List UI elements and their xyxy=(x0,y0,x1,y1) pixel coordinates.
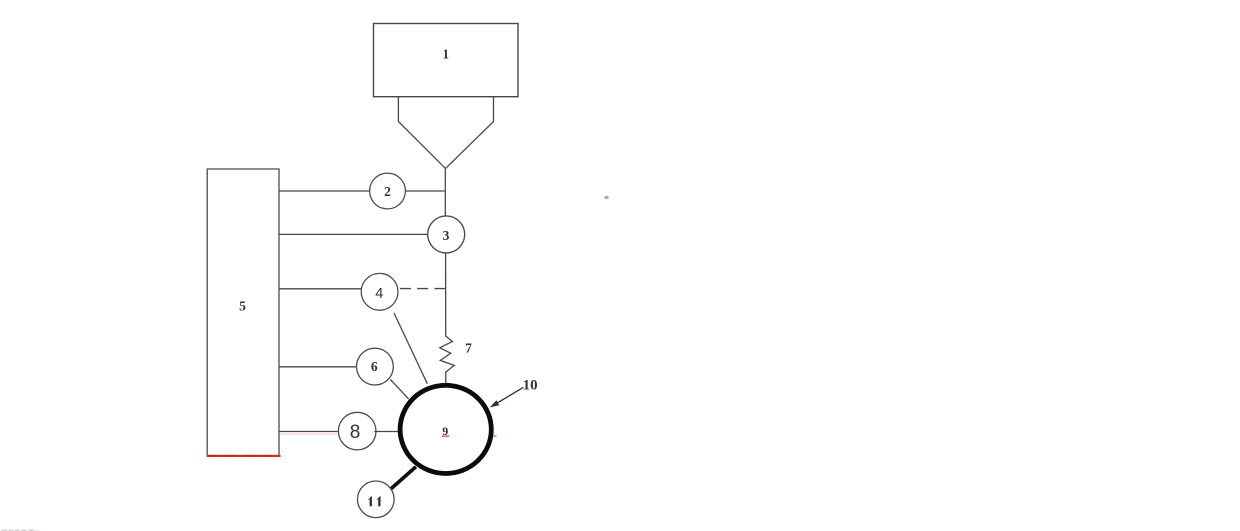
label 1 xyxy=(442,47,449,62)
resistor 7 (zigzag feeder) xyxy=(440,336,454,384)
red tick on right edge of mill 9 xyxy=(493,435,496,437)
red underline under 9 xyxy=(442,435,449,437)
tiny scan speck right of diagram xyxy=(604,196,609,200)
faint red scan line near node 8 wire xyxy=(280,433,342,435)
svg-text:4: 4 xyxy=(375,286,383,302)
svg-text:5: 5 xyxy=(239,299,246,314)
diagonal wire node6 to mill 9 xyxy=(390,380,408,399)
diagonal wire node4 to mill 9 xyxy=(394,313,427,384)
svg-text:2: 2 xyxy=(384,184,391,199)
label 5 xyxy=(239,299,246,314)
node 4 circle xyxy=(361,273,398,310)
wire node8 to mill 9 xyxy=(374,431,399,433)
svg-text:7: 7 xyxy=(465,341,472,356)
red bottom edge of block 5 xyxy=(207,455,281,457)
label 7 xyxy=(465,341,472,356)
mill 9 (large bold circle) xyxy=(400,385,491,473)
node 8 circle xyxy=(338,412,376,450)
wire funnel tip to node 3 xyxy=(444,168,446,216)
svg-text:1: 1 xyxy=(442,47,449,62)
svg-text:6: 6 xyxy=(371,359,378,374)
arrow leader 10 xyxy=(490,387,524,407)
node 6 circle xyxy=(357,348,394,385)
faint smudge bottom-left corner xyxy=(0,529,41,531)
wire block5 to node 8 xyxy=(279,431,338,433)
block 5 (tall left rectangle) xyxy=(207,169,279,455)
thick link mill 9 to node 11 xyxy=(391,467,416,489)
block 1 (top rectangle) xyxy=(374,24,519,97)
node 11 circle xyxy=(358,481,395,518)
label 11 (footless sans digits) xyxy=(367,496,380,506)
wire block5 to node 4 xyxy=(279,288,361,290)
dashed wire node4 to feed line xyxy=(400,288,446,290)
wire node3 down to resistor xyxy=(445,253,447,337)
wire node2 to feed line xyxy=(405,190,444,192)
label 9 xyxy=(442,424,448,438)
svg-text:3: 3 xyxy=(443,228,450,243)
node 2 circle xyxy=(370,173,406,209)
svg-text:10: 10 xyxy=(523,378,538,394)
label 10 xyxy=(523,378,538,394)
node 3 circle xyxy=(428,216,465,253)
wire block5 to node 6 xyxy=(279,366,357,368)
svg-text:8: 8 xyxy=(350,422,361,443)
wire block5 to node 3 xyxy=(279,233,428,235)
funnel / hopper below block 1 xyxy=(398,97,493,169)
wire block5 to node 2 xyxy=(279,190,370,192)
